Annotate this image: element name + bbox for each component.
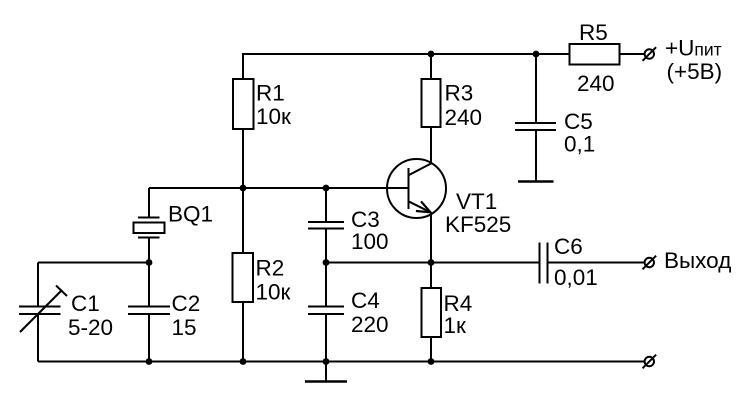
- capacitor C3: [308, 222, 344, 229]
- svg-text:R1: R1: [256, 81, 285, 106]
- wire: R5 right lead to +V terminal: [620, 53, 646, 55]
- svg-text:BQ1: BQ1: [168, 202, 213, 227]
- wire: C6 to output terminal: [548, 262, 645, 264]
- wire: C3 top lead: [325, 188, 327, 222]
- wire: C1 bottom lead: [37, 315, 39, 362]
- wire: output rail: [326, 262, 539, 264]
- wire: C4 bottom lead: [325, 315, 327, 362]
- wire: R3 top lead: [430, 54, 432, 79]
- wire: C3 bottom lead: [325, 229, 327, 263]
- junction: C5 top node: [533, 51, 540, 58]
- ground (C5): [518, 180, 554, 183]
- terminal output: [643, 256, 657, 270]
- svg-text:VT1: VT1: [456, 189, 497, 214]
- capacitor C6: [540, 243, 548, 284]
- wire: C2 bottom lead: [148, 315, 150, 362]
- resistor R5: [570, 44, 620, 65]
- junction: C2 bottom node: [146, 358, 153, 365]
- junction: emitter output node: [428, 259, 435, 266]
- svg-text:(+5В): (+5В): [667, 59, 723, 84]
- wire: BQ1 bottom lead: [148, 238, 150, 263]
- wire: BQ1 top lead: [148, 188, 150, 218]
- svg-text:C2: C2: [172, 291, 201, 316]
- svg-text:0,01: 0,01: [554, 265, 598, 290]
- svg-text:R5: R5: [579, 20, 608, 45]
- terminal +Upit: [643, 47, 657, 61]
- junction: R4 bottom node: [428, 358, 435, 365]
- junction: C4 bottom node: [323, 358, 330, 365]
- wire: base rail: [149, 187, 409, 189]
- svg-text:Выход: Выход: [664, 248, 731, 273]
- capacitor C5: [515, 123, 556, 130]
- svg-text:C4: C4: [351, 288, 380, 313]
- svg-text:C6: C6: [554, 234, 583, 259]
- wire: R3 bottom lead to collector: [430, 127, 432, 164]
- capacitor C2: [128, 307, 170, 315]
- wire: R1 bottom lead to base node: [242, 129, 244, 188]
- svg-text:KF525: KF525: [445, 212, 511, 237]
- svg-text:100: 100: [351, 229, 389, 254]
- svg-text:C5: C5: [564, 109, 593, 134]
- wire: R1 top corner to +V top rail: [243, 54, 570, 79]
- svg-text:R3: R3: [445, 81, 474, 106]
- transistor VT1: [387, 159, 446, 218]
- junction: R2 bottom node: [240, 358, 247, 365]
- svg-text:C1: C1: [71, 291, 100, 316]
- junction: left rail node: [146, 259, 153, 266]
- wire: C4 top lead: [325, 263, 327, 307]
- wire: R4 bottom lead: [430, 337, 432, 362]
- terminal common: [643, 355, 657, 369]
- wire: emitter lead: [430, 214, 432, 263]
- junction: C3 base node: [323, 185, 330, 192]
- capacitor C1 (trimmer): [19, 286, 67, 333]
- resistor R4: [422, 288, 442, 337]
- svg-text:240: 240: [445, 105, 483, 130]
- resistor R2: [233, 253, 254, 302]
- svg-text:10к: 10к: [256, 280, 291, 305]
- junction: R3 top node: [428, 51, 435, 58]
- wire: C5 top lead: [535, 54, 537, 123]
- wire: left node rail: [38, 262, 149, 264]
- junction: C4 output node: [323, 259, 330, 266]
- wire: C5 bottom lead: [535, 131, 537, 182]
- junction: R1/R2 base node: [240, 185, 247, 192]
- svg-text:240: 240: [577, 71, 615, 96]
- svg-text:R2: R2: [256, 256, 285, 281]
- wire: R2 bottom lead: [242, 302, 244, 362]
- resistor R1: [233, 79, 254, 129]
- svg-text:0,1: 0,1: [564, 132, 595, 157]
- wire: C2 top lead: [148, 263, 150, 307]
- wire: bottom common rail: [38, 361, 645, 363]
- resistor R3: [422, 79, 441, 127]
- svg-text:15: 15: [172, 315, 197, 340]
- wire: R2 top lead: [242, 188, 244, 253]
- wire: R4 top lead: [430, 263, 432, 289]
- svg-text:+Uпит: +Uпит: [665, 36, 722, 61]
- svg-text:5-20: 5-20: [68, 315, 113, 340]
- svg-text:10к: 10к: [256, 104, 291, 129]
- svg-text:220: 220: [351, 312, 389, 337]
- wire: ground stem: [325, 362, 327, 382]
- svg-text:1к: 1к: [444, 313, 467, 338]
- crystal BQ1: [134, 218, 165, 238]
- wire: C1 top lead: [37, 263, 39, 307]
- capacitor C4: [308, 307, 344, 315]
- ground (main): [305, 380, 347, 383]
